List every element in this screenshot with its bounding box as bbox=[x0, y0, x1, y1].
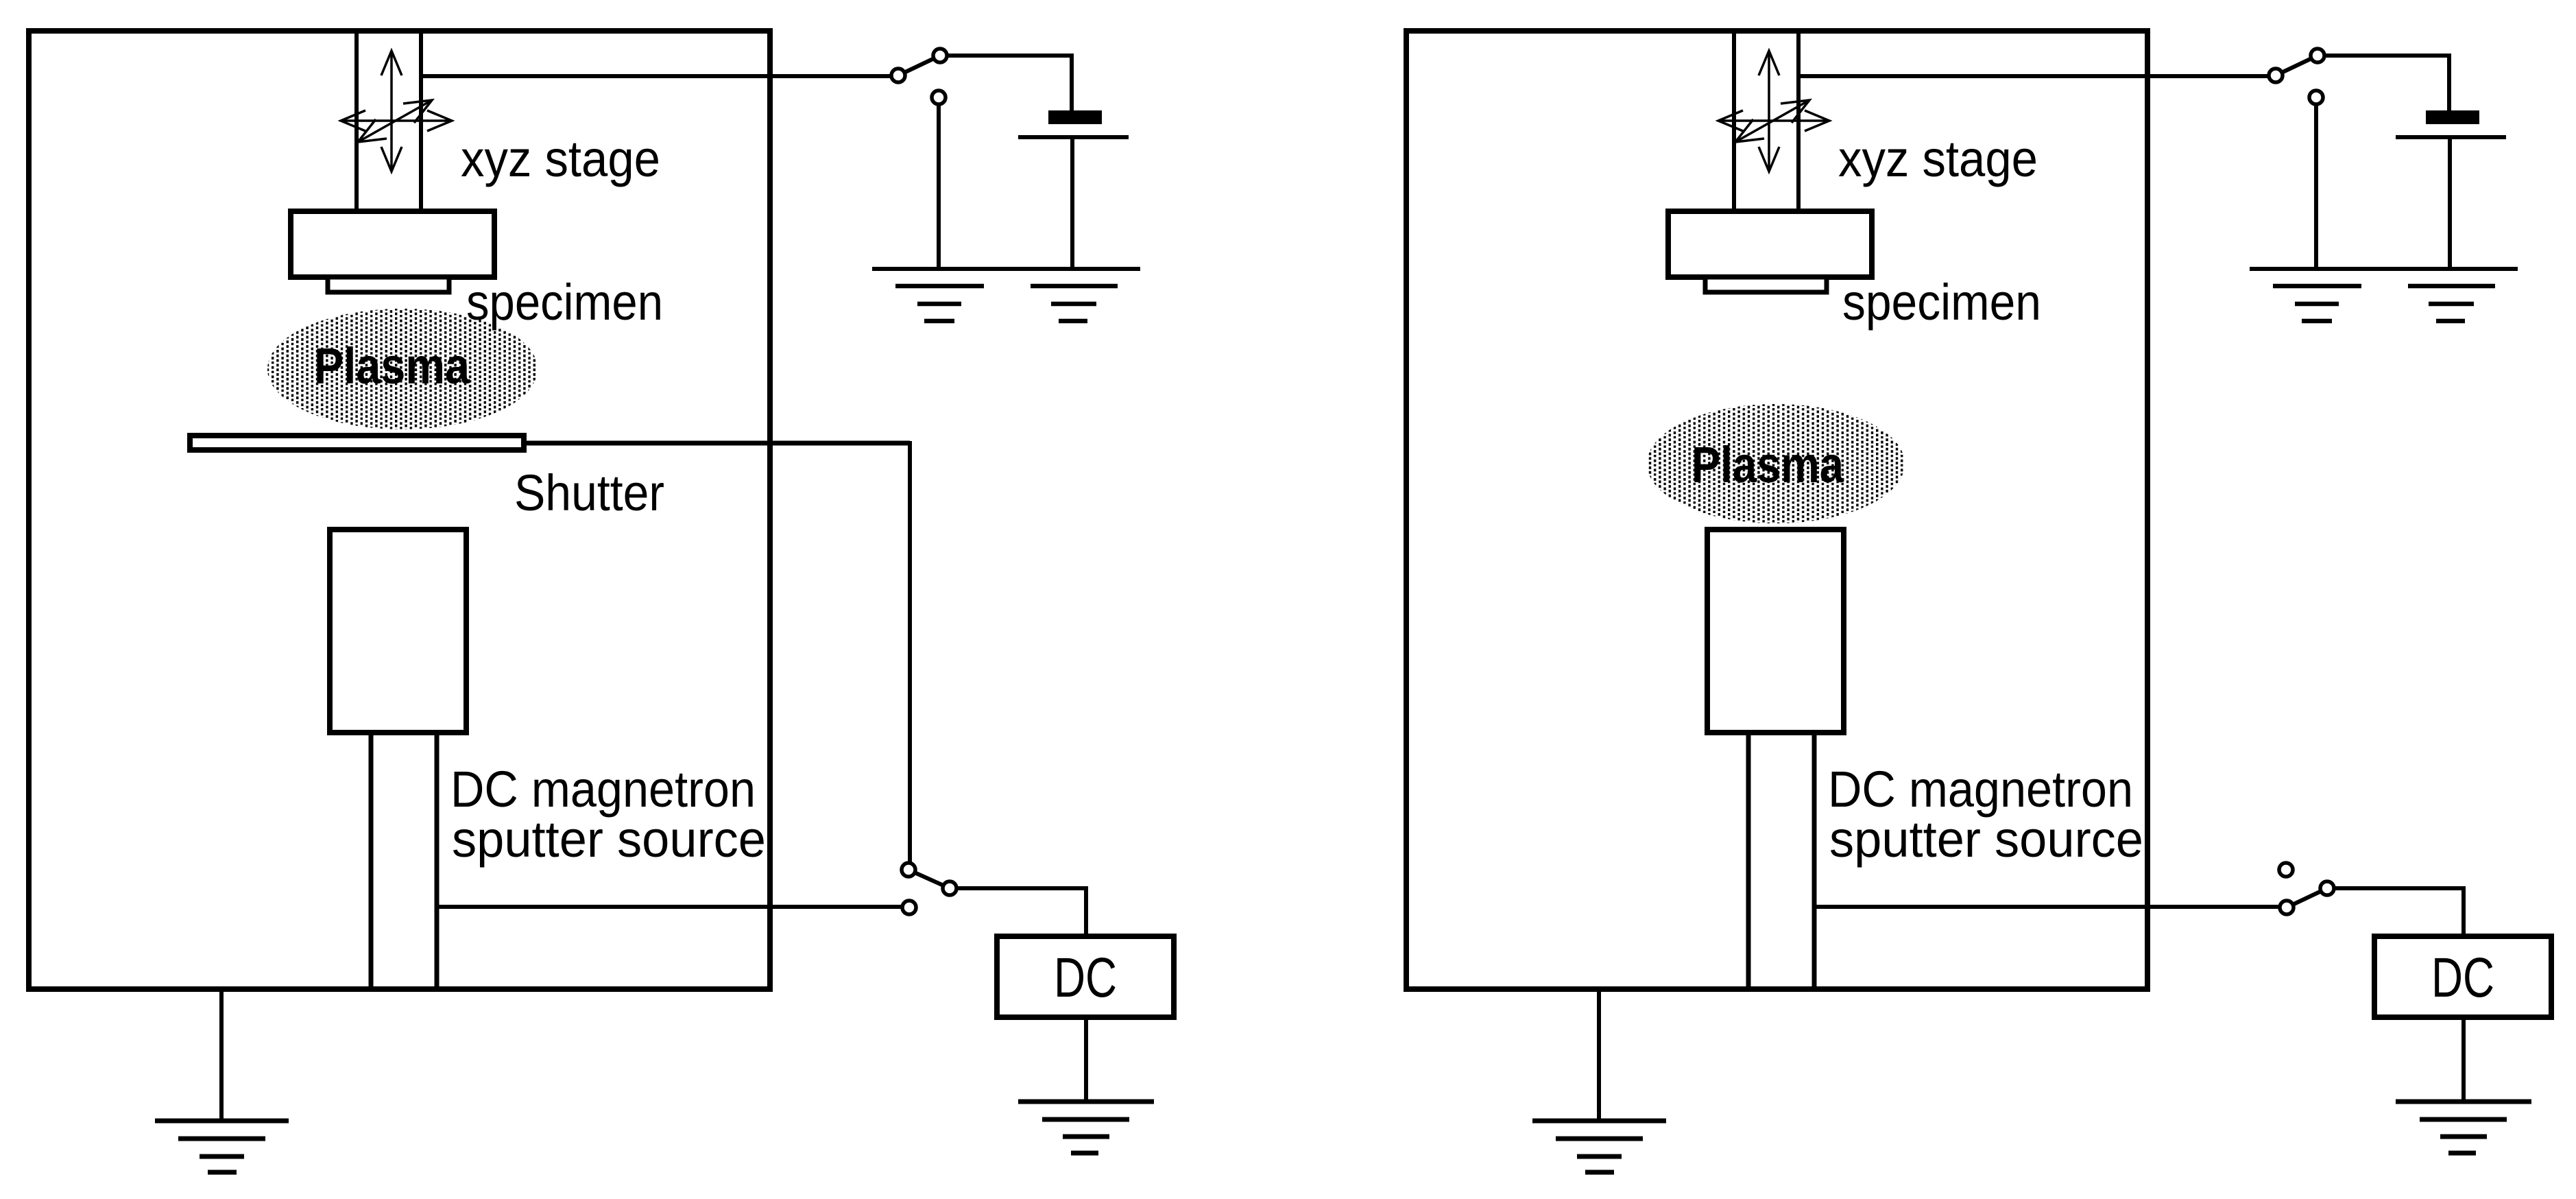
plasma cloud (left) bbox=[267, 309, 538, 429]
svg-text:xyz stage: xyz stage bbox=[461, 130, 660, 187]
label Plasma (left) bbox=[314, 337, 470, 394]
wire shutter arm bbox=[524, 441, 910, 863]
chamber ground lead (left) bbox=[219, 992, 224, 1121]
label DC magnetron sputter source (left) bbox=[450, 761, 766, 868]
battery bias electrode (left) bbox=[1018, 110, 1129, 137]
plasma cloud (right) bbox=[1647, 404, 1905, 523]
wire source to switch S2 (left) bbox=[437, 905, 902, 909]
label xyz stage (right) bbox=[1838, 130, 2038, 187]
switch S1 (left) bbox=[891, 49, 947, 104]
wire battery to ground bus (right) bbox=[2448, 139, 2452, 269]
wire source to switch S4 (right) bbox=[1814, 905, 2280, 909]
DC magnetron sputter source target (right) bbox=[1707, 530, 1844, 733]
svg-text:specimen: specimen bbox=[466, 274, 663, 331]
ground below DC supply (left) bbox=[1018, 1102, 1154, 1153]
xyz stage rod (left) bbox=[357, 34, 421, 211]
label Plasma (right) bbox=[1692, 436, 1844, 493]
battery bias electrode (right) bbox=[2396, 110, 2506, 137]
specimen holder block (left) bbox=[291, 211, 494, 277]
label DC (left) bbox=[1054, 947, 1117, 1009]
wire stage to switch S1 (left) bbox=[423, 74, 891, 78]
wire S3 throw to ground bus (right) bbox=[2314, 104, 2318, 269]
wire S1 to battery (left) bbox=[947, 56, 1072, 110]
source stem (right) bbox=[1748, 733, 1814, 986]
svg-text:Plasma: Plasma bbox=[314, 337, 470, 394]
svg-text:DC magnetron: DC magnetron bbox=[450, 761, 756, 818]
svg-text:sputter source: sputter source bbox=[1829, 811, 2143, 868]
wire S3 to battery (right) bbox=[2324, 56, 2449, 110]
DC power supply box (left) bbox=[997, 936, 1174, 1017]
label specimen (left) bbox=[466, 274, 663, 331]
label xyz stage (left) bbox=[461, 130, 660, 187]
svg-text:Plasma: Plasma bbox=[1692, 436, 1844, 493]
source stem (left) bbox=[371, 733, 437, 986]
xyz stage rod (right) bbox=[1734, 34, 1798, 211]
svg-text:specimen: specimen bbox=[1842, 274, 2041, 331]
svg-text:DC: DC bbox=[2431, 947, 2494, 1009]
wire S1 throw to ground bus (left) bbox=[937, 104, 941, 269]
label DC (right) bbox=[2431, 947, 2494, 1009]
switch S2 (left) bbox=[902, 863, 956, 914]
switch S4 (right) bbox=[2279, 863, 2334, 914]
svg-text:Shutter: Shutter bbox=[514, 464, 664, 521]
ground below switch S3 (right) bbox=[2273, 286, 2361, 321]
ground below DC supply (right) bbox=[2396, 1102, 2531, 1153]
ground below switch S1 (left) bbox=[895, 286, 984, 321]
chamber ground (left) bbox=[155, 1121, 289, 1172]
chamber ground lead (right) bbox=[1597, 992, 1601, 1121]
wire stage to switch S3 (right) bbox=[1801, 74, 2269, 78]
wire S4 to DC supply (right) bbox=[2334, 888, 2464, 936]
svg-text:DC magnetron: DC magnetron bbox=[1828, 761, 2133, 818]
svg-text:sputter source: sputter source bbox=[452, 811, 766, 868]
switch S3 (right) bbox=[2269, 49, 2324, 104]
specimen holder block (right) bbox=[1668, 211, 1872, 277]
chamber ground (right) bbox=[1532, 1121, 1666, 1172]
xyz motion arrows (right) bbox=[1718, 51, 1829, 171]
shutter bar bbox=[190, 436, 524, 450]
ground below battery (left) bbox=[1031, 286, 1118, 321]
label Shutter bbox=[514, 464, 664, 521]
wire DC supply to ground (left) bbox=[1084, 1017, 1088, 1102]
DC magnetron sputter source target (left) bbox=[330, 530, 466, 733]
wire S2 to DC supply (left) bbox=[956, 888, 1086, 936]
ground bus (right) bbox=[2250, 267, 2518, 271]
label specimen (right) bbox=[1842, 274, 2041, 331]
vacuum chamber (right) bbox=[1406, 31, 2147, 989]
svg-text:DC: DC bbox=[1054, 947, 1117, 1009]
specimen plate (left) bbox=[328, 277, 449, 292]
wire battery to ground bus (left) bbox=[1070, 139, 1074, 269]
ground below battery (right) bbox=[2408, 286, 2495, 321]
label DC magnetron sputter source (right) bbox=[1828, 761, 2143, 868]
DC power supply box (right) bbox=[2374, 936, 2551, 1017]
ground bus (left) bbox=[872, 267, 1140, 271]
specimen plate (right) bbox=[1705, 277, 1827, 292]
wire DC supply to ground (right) bbox=[2461, 1017, 2466, 1102]
xyz motion arrows (left) bbox=[341, 51, 452, 171]
svg-text:xyz stage: xyz stage bbox=[1838, 130, 2038, 187]
vacuum chamber (left) bbox=[29, 31, 770, 989]
